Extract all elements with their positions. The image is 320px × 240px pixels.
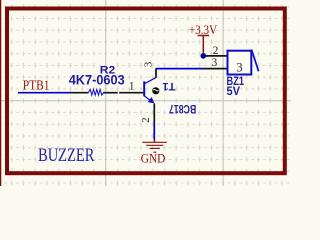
zone divider line vertical right bbox=[222, 0, 224, 186]
wire PTB1 to resistor R2 bbox=[18, 92, 71, 94]
sheet background bbox=[0, 0, 291, 186]
resistor R2 body zigzag bbox=[88, 89, 103, 95]
transistor T1 collector diagonal bbox=[144, 78, 156, 84]
zone divider line vertical left bbox=[105, 0, 107, 186]
svg-text:PTB1: PTB1 bbox=[23, 78, 50, 93]
wire emitter to GND bbox=[153, 123, 155, 140]
wire collector to buzzer pin 3 bbox=[156, 68, 205, 70]
transistor T1 base bar bbox=[143, 81, 145, 96]
transistor T1 base pin (pin 1) bbox=[119, 92, 143, 94]
error marker dot on T1 bbox=[152, 87, 159, 94]
ground symbol bbox=[153, 139, 155, 142]
svg-text:BC817: BC817 bbox=[169, 102, 196, 116]
transistor T1 collector pin (pin 3) bbox=[155, 68, 157, 78]
buzzer BZ1 pin 2 bbox=[206, 55, 228, 57]
wire power to buzzer pin 2 bbox=[203, 55, 207, 57]
svg-text:T1: T1 bbox=[163, 80, 176, 92]
resistor R2 right pin bbox=[103, 92, 117, 94]
transistor T1 emitter diagonal with arrow bbox=[144, 96, 150, 101]
transistor T1 emitter arrowhead bbox=[148, 97, 155, 103]
svg-text:GND: GND bbox=[141, 152, 166, 166]
svg-text:3: 3 bbox=[142, 61, 154, 67]
power bar symbol bbox=[198, 35, 210, 37]
svg-text:2: 2 bbox=[213, 45, 219, 57]
sheet border frame bbox=[7, 9, 285, 174]
svg-text:1: 1 bbox=[129, 80, 135, 93]
resistor R2 left pin bbox=[70, 92, 88, 94]
adjacent sheet border fragment at left edge bbox=[0, 0, 2, 186]
svg-text:4K7-0603: 4K7-0603 bbox=[69, 73, 125, 88]
svg-text:3: 3 bbox=[212, 57, 218, 69]
junction dot bbox=[201, 53, 207, 59]
svg-text:BUZZER: BUZZER bbox=[38, 145, 95, 166]
buzzer diagonal element bbox=[252, 50, 259, 72]
transistor T1 emitter pin (pin 2) bbox=[153, 103, 155, 123]
svg-text:3: 3 bbox=[236, 60, 242, 74]
zone divider line horizontal bbox=[0, 100, 291, 102]
svg-text:5V: 5V bbox=[227, 84, 241, 98]
buzzer BZ1 pin 3 bbox=[204, 68, 228, 70]
svg-text:2: 2 bbox=[140, 117, 152, 123]
buzzer BZ1 body bbox=[228, 51, 252, 75]
svg-text:+3.3V: +3.3V bbox=[189, 22, 218, 37]
